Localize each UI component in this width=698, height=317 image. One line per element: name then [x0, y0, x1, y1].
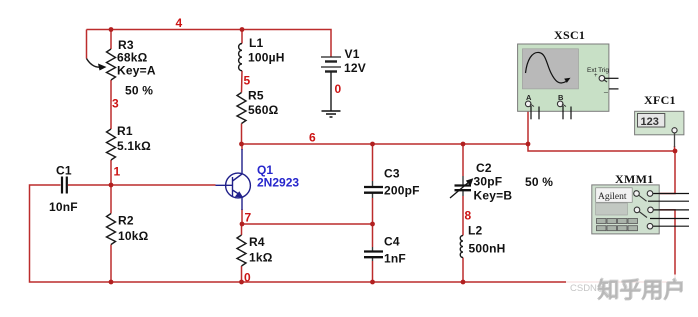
- junction node6-R5: [239, 142, 244, 147]
- svg-text:68kΩ: 68kΩ: [117, 51, 148, 65]
- svg-text:L2: L2: [468, 224, 483, 238]
- svg-text:C4: C4: [384, 235, 400, 249]
- capacitor C1: [61, 177, 63, 194]
- svg-text:10nF: 10nF: [49, 200, 78, 214]
- svg-text:V1: V1: [345, 47, 360, 61]
- svg-text:100µH: 100µH: [248, 51, 285, 65]
- junction node6-C3: [370, 142, 375, 147]
- ground: [322, 110, 341, 112]
- XMM1 buttons: [597, 219, 638, 231]
- wire pot wiper loop: [86, 30, 88, 59]
- svg-text:50 %: 50 %: [525, 175, 553, 189]
- wire R2 leads: [110, 185, 112, 214]
- resistor R1: [107, 129, 116, 160]
- svg-text:C3: C3: [384, 167, 400, 181]
- svg-text:1nF: 1nF: [384, 252, 406, 266]
- svg-text:3: 3: [112, 97, 119, 111]
- capacitor C4: [364, 250, 383, 252]
- svg-text:C2: C2: [476, 161, 492, 175]
- junction node0-R4: [239, 280, 244, 285]
- svg-text:Ext Trig: Ext Trig: [587, 67, 609, 74]
- svg-text:1kΩ: 1kΩ: [249, 251, 273, 265]
- svg-text:R4: R4: [249, 235, 265, 249]
- svg-text:6: 6: [309, 131, 316, 145]
- watermark: [566, 275, 690, 302]
- svg-text:200pF: 200pF: [384, 184, 420, 198]
- wire C1 left: [30, 185, 676, 282]
- svg-text:0: 0: [335, 82, 342, 96]
- wire R3 top lead: [110, 30, 112, 50]
- potentiometer wiper arrow: [87, 59, 101, 68]
- junction node0-R2: [109, 280, 114, 285]
- XMM1 terminals and stubs: [653, 193, 689, 195]
- node 3 wire: [110, 80, 112, 129]
- wire right rail lower: [652, 210, 675, 282]
- resistor R4: [237, 235, 246, 266]
- svg-text:560Ω: 560Ω: [248, 103, 279, 117]
- svg-text:0: 0: [244, 271, 251, 285]
- wire scope A drop: [527, 104, 529, 144]
- wire XFC1 drop: [674, 146, 676, 151]
- junction XFC1: [673, 149, 678, 154]
- wire node4 top rail: [87, 30, 332, 57]
- wire C2 leads / node 8: [462, 144, 464, 176]
- svg-text:Key=B: Key=B: [474, 189, 513, 203]
- svg-text:7: 7: [245, 211, 252, 225]
- resistor R2: [107, 214, 116, 245]
- wire R5 bottom lead: [241, 124, 243, 145]
- svg-text:10kΩ: 10kΩ: [118, 229, 149, 243]
- wire C3 leads: [372, 144, 374, 181]
- wire right rail upper: [652, 151, 675, 194]
- svg-text:30pF: 30pF: [474, 175, 503, 189]
- svg-text:C1: C1: [56, 164, 72, 178]
- node 7 wire: [242, 223, 373, 225]
- junction node6-scopeA: [526, 142, 531, 147]
- svg-text:1: 1: [114, 165, 121, 179]
- junction node0-C4: [370, 280, 375, 285]
- wire R1 bottom lead: [110, 160, 112, 185]
- svg-text:R2: R2: [118, 214, 134, 228]
- wire R4 leads: [241, 224, 243, 235]
- resistor R3 (potentiometer): [107, 49, 116, 80]
- transistor Q1: [226, 173, 251, 198]
- svg-text:+: +: [594, 73, 598, 79]
- svg-text:Agilent: Agilent: [598, 192, 627, 202]
- wire V1 to ground: [330, 72, 332, 112]
- svg-text:R1: R1: [117, 124, 133, 138]
- svg-text:XSC1: XSC1: [554, 28, 585, 42]
- capacitor C2 (variable): [455, 184, 472, 186]
- resistor R5: [237, 93, 246, 124]
- junction node7-C3C4: [370, 222, 375, 227]
- junction node4-R3: [109, 27, 114, 32]
- svg-text:500nH: 500nH: [469, 242, 506, 256]
- node 1 wire: [68, 184, 216, 186]
- svg-text:_: _: [603, 87, 608, 94]
- wire L2 bottom lead: [462, 258, 464, 283]
- svg-text:5: 5: [244, 74, 251, 88]
- node 6 wire: [242, 144, 676, 151]
- svg-text:2N2923: 2N2923: [257, 176, 299, 190]
- wire L1 top lead: [241, 30, 243, 44]
- svg-text:XFC1: XFC1: [644, 93, 676, 107]
- wire Q1 emitter stub: [241, 209, 243, 224]
- svg-text:123: 123: [641, 116, 659, 128]
- svg-text:知乎用户: 知乎用户: [597, 278, 685, 303]
- battery V1: [321, 56, 341, 58]
- svg-text:12V: 12V: [344, 61, 366, 75]
- wire C4 leads: [372, 224, 374, 247]
- svg-text:8: 8: [465, 209, 472, 223]
- svg-text:50 %: 50 %: [125, 84, 153, 98]
- junction node4-L1: [240, 27, 245, 32]
- svg-text:R5: R5: [248, 89, 264, 103]
- junction node 1: [109, 183, 114, 188]
- junction node6-C2: [461, 142, 466, 147]
- node 5 wire: [241, 71, 244, 93]
- svg-text:XMM1: XMM1: [615, 172, 654, 186]
- inductor L2: [460, 236, 463, 258]
- junction node0-L2: [461, 280, 466, 285]
- inductor L1: [239, 44, 242, 71]
- svg-text:Key=A: Key=A: [117, 64, 156, 78]
- svg-text:4: 4: [176, 16, 183, 30]
- svg-text:L1: L1: [249, 36, 264, 50]
- svg-text:5.1kΩ: 5.1kΩ: [117, 139, 151, 153]
- junction node7-emitter: [240, 222, 245, 227]
- wire Q1 collector stub: [241, 144, 243, 150]
- capacitor C3: [364, 186, 383, 188]
